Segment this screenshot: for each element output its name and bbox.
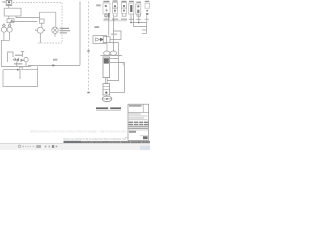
title block cell text bbox=[129, 131, 136, 133]
dashed signal line top bbox=[13, 2, 62, 4]
filter F1 element bbox=[96, 38, 100, 41]
wire P2 to head block bbox=[41, 23, 43, 27]
SV-E label bbox=[136, 2, 141, 3]
wire main drop to cylinder bbox=[113, 17, 115, 51]
filter F1 label bbox=[94, 26, 99, 28]
cluster labels bottom bbox=[14, 63, 22, 64]
title block faint row 4 bbox=[129, 119, 148, 120]
toolbar faint mark bbox=[32, 146, 34, 147]
flow arrow into T1 bbox=[17, 69, 20, 71]
check valve CV3 arrow bbox=[100, 38, 104, 42]
wire line B to pump P2 bbox=[14, 21, 37, 23]
cushion dark port bbox=[105, 92, 107, 94]
title block mid row bbox=[129, 128, 148, 129]
SV-C label bbox=[121, 1, 126, 2]
wire filter feed bbox=[108, 18, 110, 36]
toolbar right panel bbox=[140, 146, 150, 150]
title block h-line 1 bbox=[128, 111, 149, 113]
solenoid valve SV-F bbox=[145, 3, 150, 15]
wire stub 2 bbox=[142, 32, 147, 34]
cylinder rod bbox=[106, 78, 108, 84]
dashed enclosure right side bbox=[61, 3, 63, 43]
tick text under SV-F bbox=[145, 19, 149, 20]
junction dot J1 bbox=[13, 59, 14, 60]
wire line A bbox=[16, 16, 40, 18]
junction dot header b bbox=[130, 22, 131, 23]
left margin tick bbox=[125, 137, 128, 138]
solenoid valve SV-B bbox=[113, 2, 118, 13]
accumulator pair ellipse 1 bbox=[104, 51, 110, 55]
wire SV-B bridge bbox=[113, 14, 117, 16]
SV-D label bbox=[129, 1, 134, 2]
valve cluster V1 bbox=[8, 52, 25, 63]
wire filter outlet bbox=[110, 39, 121, 41]
footer band dark lead bbox=[64, 141, 82, 144]
title block dark row 3 bbox=[129, 126, 148, 127]
relief valve PSV-1 bbox=[6, 0, 12, 5]
cluster labels top bbox=[15, 55, 23, 56]
toolbar slider ticks 2 bbox=[28, 146, 29, 147]
title block faint row 2 bbox=[129, 115, 148, 116]
junction dot J2 bbox=[23, 60, 24, 61]
title block faint row 1 bbox=[129, 113, 141, 114]
cushion inner line 2 bbox=[103, 89, 110, 91]
match line tick top bbox=[87, 50, 89, 51]
pump head block bbox=[40, 19, 45, 23]
toolbar slider ticks 3 bbox=[30, 146, 31, 147]
toolbar icon zoom-out bbox=[18, 145, 21, 148]
valve body right bbox=[103, 37, 110, 43]
toolbar top border bbox=[0, 142, 150, 145]
suction connector box bbox=[19, 67, 22, 69]
wire P1b drop bbox=[9, 32, 11, 40]
sheet background bbox=[0, 0, 150, 150]
match line dashed bbox=[88, 2, 90, 96]
wire tie 1 bbox=[110, 58, 119, 60]
supply label bbox=[53, 59, 57, 61]
footer dense text band bbox=[64, 141, 151, 143]
PSV-1 label bbox=[2, 1, 5, 2]
wire SV row ticks bbox=[104, 19, 134, 20]
match line tick bottom bbox=[87, 92, 89, 93]
wire SV-A drop with port circle bbox=[105, 14, 107, 18]
wire header second bbox=[134, 14, 147, 27]
toolbar slider ticks bbox=[25, 146, 26, 147]
cushion inner line 1 bbox=[103, 86, 110, 88]
base center pin bbox=[106, 98, 108, 100]
title block dark row 1 bbox=[129, 122, 149, 123]
toolbar zoom button block bbox=[36, 145, 41, 148]
power unit enclosure bbox=[4, 8, 21, 16]
reservoir T1 walls bbox=[3, 67, 38, 87]
node label N1 bbox=[96, 4, 101, 6]
cylinder piston bbox=[104, 58, 109, 63]
wire tie 3 bbox=[107, 59, 119, 81]
pump P2 bbox=[37, 27, 43, 33]
wire P1a drop bbox=[3, 32, 5, 40]
filter outlet text bbox=[111, 34, 117, 35]
valve V2 bowtie bbox=[15, 58, 19, 62]
title block faint row 3 bbox=[129, 117, 144, 118]
wire base stem bbox=[105, 95, 107, 96]
SV-B label bbox=[113, 0, 118, 1]
svg-text:REFERENCE DRAWINGS: P2847-HYD-: REFERENCE DRAWINGS: P2847-HYD-002 HYDRAU… bbox=[30, 131, 126, 134]
gauge PI-1 bbox=[24, 57, 28, 61]
port circle SV-A bbox=[105, 14, 108, 17]
wire tie 4 bbox=[110, 92, 125, 94]
toolbar prev arrow bbox=[44, 145, 46, 148]
junction dot header a bbox=[138, 22, 139, 23]
check valve CV1 bbox=[3, 24, 6, 27]
title block h-line 3 bbox=[140, 135, 149, 137]
pump P1a bbox=[1, 27, 6, 32]
wire stub 1 bbox=[142, 29, 147, 31]
wire SV-E drop to header bbox=[138, 14, 140, 23]
solenoid valve SV-E bbox=[136, 4, 141, 14]
wire cluster drop 2 bbox=[25, 62, 27, 67]
wire under accumulators bbox=[101, 55, 123, 57]
wire return manifold bbox=[1, 66, 31, 68]
solenoid valve SV-C bbox=[121, 3, 126, 14]
gauge block G1 bbox=[7, 19, 14, 23]
toolbar background bbox=[0, 143, 150, 150]
SV-F label bbox=[145, 1, 149, 2]
toolbar mid mark bbox=[49, 146, 50, 148]
flow arrow on supply bbox=[52, 64, 55, 66]
reservoir T1 top line bbox=[3, 69, 38, 71]
tick text under SV-E bbox=[136, 19, 141, 20]
check valve CV2 bbox=[8, 24, 11, 27]
dark port stub bbox=[108, 13, 109, 17]
toolbar next arrow bbox=[56, 145, 58, 148]
toolbar play square bbox=[52, 145, 54, 148]
wire supply header to riser bbox=[28, 64, 80, 66]
accumulator pair ellipse 2 bbox=[110, 51, 116, 55]
wire CV2 to line B bbox=[11, 22, 14, 24]
corner wire right bbox=[121, 63, 124, 66]
wire P2 drain bbox=[39, 33, 41, 43]
wire suction header bbox=[1, 40, 9, 66]
wire PSV-1 stem bbox=[8, 5, 10, 8]
title block top divider bbox=[142, 104, 144, 112]
wire cluster drop 1 bbox=[16, 61, 18, 66]
base ellipse mount bbox=[102, 96, 112, 101]
junction dot bus bbox=[113, 20, 114, 21]
caption text word 1 bbox=[96, 107, 108, 109]
wire SV-E bridge bbox=[137, 14, 141, 16]
dashed enclosure bottom bbox=[38, 42, 62, 44]
title block outer border bbox=[128, 104, 149, 140]
valve V3 bbox=[21, 59, 24, 62]
cylinder CYL-1 body bbox=[103, 57, 110, 78]
SV-A label bbox=[103, 1, 109, 2]
title block stamp mark bbox=[143, 136, 148, 139]
wire to accumulator 1 bbox=[106, 44, 108, 52]
title block top cell text bbox=[129, 105, 142, 107]
wire header right cluster bbox=[131, 14, 147, 33]
P2 port arrows bbox=[35, 29, 45, 31]
toolbar icon dot1 bbox=[23, 146, 24, 148]
solenoid valve SV-A bbox=[103, 3, 110, 14]
solenoid valve SV-D bbox=[129, 3, 134, 14]
wire tie 2 bbox=[110, 63, 125, 93]
lower cushion body bbox=[103, 84, 110, 95]
M1 label text bbox=[60, 28, 71, 34]
title block h-line 2 bbox=[128, 129, 149, 131]
wire drop to gauge block bbox=[8, 16, 10, 19]
caption text word 2 bbox=[110, 107, 121, 109]
wire riser bbox=[79, 2, 81, 66]
wire SV-F drop bbox=[146, 15, 148, 23]
caption underline bbox=[96, 109, 121, 112]
wire bus under units bbox=[104, 20, 128, 22]
wire M1 drain bbox=[54, 33, 56, 36]
coupling bridge pump-motor bbox=[40, 12, 56, 26]
wire jog to valve body bbox=[114, 31, 122, 40]
suction pipe in T1 bbox=[19, 70, 21, 79]
motor M1 bbox=[52, 27, 58, 33]
wire branch y42 bbox=[110, 43, 119, 59]
filter F1 body bbox=[93, 36, 107, 44]
junction dot J3 bbox=[17, 60, 18, 61]
wire SV-C bridge bbox=[122, 14, 126, 16]
base split line bbox=[102, 98, 112, 100]
pump P1b bbox=[7, 27, 12, 32]
title block dark row 2 bbox=[129, 124, 149, 125]
